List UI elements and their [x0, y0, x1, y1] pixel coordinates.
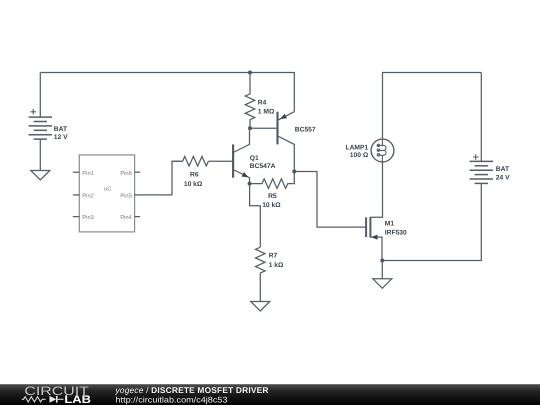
wire top rail left	[40, 72, 250, 74]
wire lamp bottom to M1 drain	[371, 162, 383, 217]
svg-text:12 V: 12 V	[54, 134, 68, 141]
ground GND3	[373, 279, 392, 289]
svg-text:uC: uC	[104, 186, 111, 193]
logo resistor zigzag	[22, 397, 46, 402]
svg-text:R6: R6	[190, 172, 199, 179]
node junction dot top rail	[248, 71, 252, 75]
MOSFET M1 gate bar	[365, 217, 367, 237]
wire base of BC557	[250, 127, 278, 129]
svg-text:BAT: BAT	[54, 126, 68, 133]
resistor R4	[245, 73, 255, 129]
wire battery BAT1 negative lead	[39, 139, 41, 170]
svg-text:1 kΩ: 1 kΩ	[269, 262, 284, 269]
svg-text:Pin3: Pin3	[82, 214, 94, 221]
svg-text:Pin1: Pin1	[82, 170, 94, 177]
transistor Q1 base bar	[232, 144, 234, 177]
wire bottom rail to BAT2	[382, 183, 481, 260]
svg-text:LAB: LAB	[64, 394, 91, 405]
MOSFET M1 channel bar	[369, 217, 371, 238]
battery BAT2 plus sign	[473, 154, 479, 160]
wire battery BAT2 positive lead	[480, 73, 482, 162]
transistor Q1 emitter	[233, 170, 249, 184]
resistor R5	[250, 172, 295, 189]
battery BAT2 plates	[470, 161, 493, 183]
wire battery BAT1 positive lead	[39, 73, 41, 118]
svg-text:R7: R7	[269, 253, 278, 260]
transistor BC557 collector	[279, 136, 295, 171]
wire Pin5 to R6	[135, 161, 182, 195]
node junction dot Q1 emitter	[248, 182, 252, 186]
svg-text:M1: M1	[385, 221, 395, 228]
pin stub Pin6	[135, 171, 141, 173]
svg-text:Q1: Q1	[250, 155, 259, 162]
pin stub Pin2	[73, 194, 80, 196]
svg-text:yogece / DISCRETE MOSFET DRIVE: yogece / DISCRETE MOSFET DRIVER	[115, 385, 269, 395]
lamp LAMP1 circle	[371, 139, 394, 162]
svg-text:BAT: BAT	[496, 166, 510, 173]
lamp LAMP1 filament	[377, 139, 386, 162]
wire rail to BC557 emitter	[250, 73, 294, 112]
MOSFET M1 source arrow	[371, 235, 377, 240]
transistor BC557 base bar	[276, 112, 278, 145]
battery BAT1 plates	[29, 117, 52, 139]
ground GND1	[31, 171, 50, 181]
svg-text:Pin6: Pin6	[120, 170, 132, 177]
resistor R6	[172, 156, 208, 166]
svg-text:10 kΩ: 10 kΩ	[184, 181, 203, 188]
pin stub Pin4	[135, 216, 141, 218]
pin stub Pin3	[73, 216, 80, 218]
battery BAT1 plus sign	[31, 109, 37, 115]
svg-text:1 MΩ: 1 MΩ	[258, 109, 275, 116]
transistor Q1 collector	[233, 128, 249, 152]
resistor R7	[256, 247, 266, 301]
transistor BC557 emitter	[279, 112, 295, 120]
wire Q1 emitter to R7	[250, 184, 261, 247]
logo diode symbol	[50, 396, 57, 403]
svg-text:10 kΩ: 10 kΩ	[262, 202, 281, 209]
wire M1 source to ground	[381, 261, 383, 279]
svg-text:Pin5: Pin5	[120, 193, 132, 200]
pin stub Pin1	[73, 171, 80, 173]
svg-text:BC557: BC557	[295, 126, 316, 133]
svg-text:IRF530: IRF530	[385, 230, 407, 237]
svg-text:R5: R5	[268, 193, 277, 200]
wire node to MOSFET gate	[294, 172, 366, 228]
svg-text:100 Ω: 100 Ω	[350, 152, 369, 159]
svg-text:24 V: 24 V	[496, 175, 510, 182]
svg-text:LAMP1: LAMP1	[346, 144, 369, 151]
wire lamp top to rail	[383, 73, 482, 140]
transistor Q1 emitter arrow	[242, 172, 249, 177]
node junction dot R4 bottom	[248, 126, 252, 130]
uC box	[79, 155, 134, 232]
MOSFET M1 source	[371, 237, 382, 260]
node junction dot M1 source	[380, 259, 384, 263]
svg-text:R4: R4	[258, 99, 267, 106]
wire R6 to Q1 base	[208, 160, 233, 162]
svg-text:BC547A: BC547A	[250, 163, 276, 170]
svg-text:Pin2: Pin2	[82, 193, 94, 200]
transistor BC557 emitter arrow	[280, 114, 287, 119]
svg-text:http://circuitlab.com/c4j8c53: http://circuitlab.com/c4j8c53	[116, 395, 228, 404]
node junction dot output	[292, 170, 296, 174]
svg-text:Pin4: Pin4	[120, 214, 132, 221]
ground GND2	[251, 302, 270, 312]
